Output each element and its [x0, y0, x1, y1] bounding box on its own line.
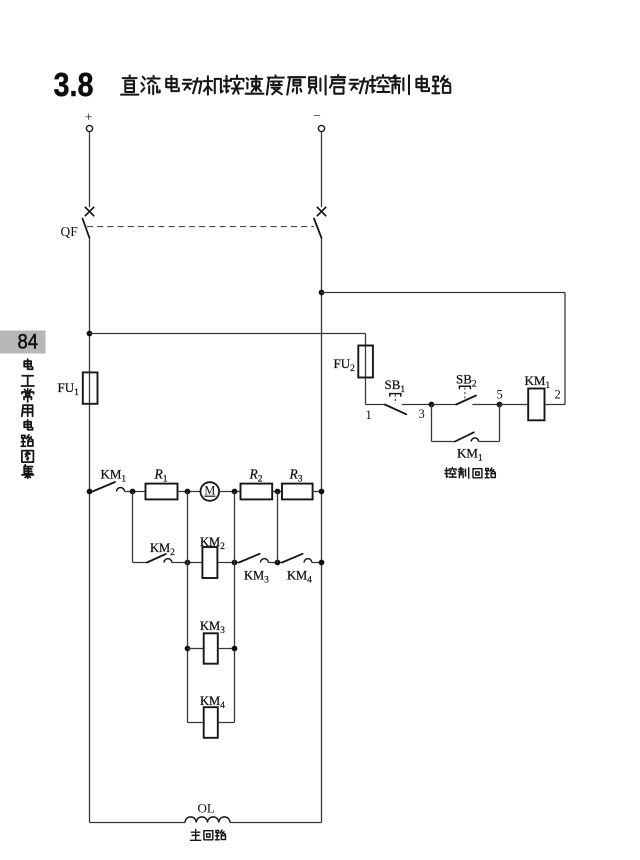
contactor coil KM1: [528, 389, 544, 421]
node 2: [555, 388, 561, 402]
svg-text:M: M: [204, 483, 215, 497]
svg-text:2: 2: [350, 364, 355, 374]
svg-text:1: 1: [478, 454, 483, 464]
contact KM1 main: [93, 482, 125, 492]
caption: main loop: [191, 830, 226, 841]
fuse FU1: [83, 372, 98, 403]
wire: KM4 contact to right bus: [312, 562, 322, 564]
wire: right bus QF down to main row: [321, 238, 323, 492]
fuse FU2: [358, 346, 373, 378]
wire: SB2 to node 5: [472, 404, 499, 406]
junction D: [275, 489, 281, 495]
svg-text:KM: KM: [525, 373, 546, 388]
resistor R3: [282, 484, 313, 500]
svg-text:OL: OL: [198, 801, 215, 816]
label KM4 (contact): [287, 569, 312, 586]
wire: FU2 branch down to control row: [365, 334, 367, 405]
breaker QF mechanical linkage (dashed): [87, 226, 314, 228]
wire: KM2 coil to KM3 contact: [217, 562, 239, 564]
contact KM3: [239, 554, 268, 563]
svg-text:KM: KM: [150, 541, 170, 555]
breaker QF left pole: [83, 207, 94, 238]
wire: drop from junction D: [277, 492, 279, 563]
wire: drop from junction A to KM2 contact: [133, 492, 147, 563]
breaker QF right pole: [314, 207, 326, 238]
svg-text:3: 3: [298, 475, 303, 485]
svg-text:1: 1: [163, 475, 168, 485]
label R2: [249, 467, 263, 485]
contact KM1 auxiliary (self-hold, NO): [455, 432, 479, 441]
label KM2 (coil): [200, 535, 225, 552]
wire: KM3 contact to KM4 contact: [268, 562, 282, 564]
label QF: [61, 224, 79, 239]
wire: KM3 coil left lead: [188, 648, 204, 650]
wire: KM1 aux contact up to node 5: [479, 405, 500, 442]
caption: control loop: [445, 468, 495, 479]
svg-text:2: 2: [258, 475, 263, 485]
svg-text:KM: KM: [244, 569, 264, 583]
label KM1 (coil): [525, 373, 551, 391]
wire: left bus to FU2 branch: [90, 333, 366, 335]
label KM3 (contact): [244, 569, 269, 586]
junction: left bus / main row: [87, 489, 93, 495]
wire: right bus main row down to bottom row: [321, 492, 323, 823]
label R3: [289, 467, 303, 485]
wire: KM2 contact to KM2 coil: [172, 562, 203, 564]
svg-text:84: 84: [18, 330, 39, 354]
wire: bottom row left: [90, 822, 186, 824]
wire: left bus from + terminal to QF: [89, 132, 91, 208]
svg-text:2: 2: [220, 542, 225, 552]
resistor R2: [241, 484, 273, 500]
wire: left bus QF to bottom (through FU1): [89, 238, 91, 492]
contactor coil KM2: [202, 547, 217, 578]
wire: node 5 to KM1 coil: [500, 404, 529, 406]
svg-text:KM: KM: [101, 467, 122, 482]
label KM1 (aux contact): [457, 446, 483, 464]
label KM1 (main contact): [101, 467, 127, 485]
contactor coil KM4: [204, 707, 218, 738]
svg-text:1: 1: [74, 388, 79, 398]
wire: drop C from main row to KM4 row: [234, 492, 236, 723]
label KM4 (coil): [200, 694, 225, 711]
motor M: [201, 482, 220, 501]
label SB1: [385, 377, 406, 395]
svg-text:1: 1: [366, 408, 372, 422]
svg-text:3.8: 3.8: [54, 66, 94, 104]
node 3: [419, 402, 435, 421]
svg-text:SB: SB: [385, 377, 401, 392]
wire: KM3 coil right lead: [218, 648, 235, 650]
junction: drop D / KM2 row: [275, 560, 281, 566]
junction: right bus to control loop feed: [319, 290, 325, 296]
svg-text:FU: FU: [58, 380, 75, 395]
junction C: [232, 489, 238, 495]
junction: drop C / KM3 row: [232, 646, 238, 652]
title: DC motor speed-principle starting control circuit: [121, 75, 450, 95]
page number 84: [0, 330, 46, 354]
wire: node 3 to SB2: [432, 404, 457, 406]
svg-text:1: 1: [545, 381, 550, 391]
svg-text:−: −: [314, 108, 321, 123]
label OL: [198, 801, 215, 816]
wire: R1 to motor: [178, 491, 201, 493]
label SB2: [456, 372, 477, 390]
wire: R3 to right bus: [313, 491, 322, 493]
section number 3.8: [54, 66, 94, 104]
sidebar book title (vertical): [21, 359, 34, 478]
svg-text:KM: KM: [200, 694, 220, 708]
wire: KM1 coil to right feed: [545, 404, 566, 406]
svg-text:3: 3: [220, 626, 225, 636]
svg-text:5: 5: [497, 388, 503, 402]
wire: left bus main row to bottom row: [89, 492, 91, 823]
wire: bottom row right: [230, 822, 322, 824]
node + (positive supply terminal): [85, 111, 93, 132]
svg-text:KM: KM: [200, 535, 220, 549]
svg-text:QF: QF: [61, 224, 79, 239]
wire: node 1 to SB1: [366, 404, 385, 406]
resistor R1: [146, 484, 178, 500]
label FU1: [58, 380, 80, 398]
pushbutton SB2 (NO start): [456, 386, 476, 404]
svg-text:4: 4: [307, 576, 312, 586]
junction: right bus / main row: [319, 489, 325, 495]
wire: node 3 down to KM1 aux contact: [432, 405, 456, 442]
svg-text:1: 1: [400, 385, 405, 395]
svg-text:FU: FU: [334, 356, 351, 371]
contact KM2: [147, 554, 172, 563]
svg-text:3: 3: [419, 407, 425, 421]
junction A (drop to KM2 contact): [130, 489, 136, 495]
overload heater OL: [185, 817, 230, 823]
junction: drop C / KM2 row: [232, 560, 238, 566]
svg-text:SB: SB: [456, 372, 472, 387]
wire: KM4 coil right lead: [218, 722, 235, 724]
wire: R2 to R3: [272, 491, 282, 493]
wire: SB1 to node 3: [402, 404, 432, 406]
svg-text:KM: KM: [200, 619, 220, 633]
junction: right bus / KM2 row: [319, 560, 325, 566]
node - (negative supply terminal): [314, 108, 325, 132]
svg-text:1: 1: [121, 475, 126, 485]
wire: motor to R2: [219, 491, 240, 493]
contactor coil KM3: [204, 633, 218, 663]
svg-text:3: 3: [264, 576, 269, 586]
contact KM4: [282, 554, 312, 563]
svg-text:KM: KM: [457, 446, 478, 461]
wire: KM1 main to R1: [125, 491, 146, 493]
wire: drop B from main row to KM4 row: [187, 492, 189, 723]
label KM3 (coil): [200, 619, 225, 636]
svg-text:4: 4: [220, 701, 225, 711]
wire: KM4 coil left lead: [188, 722, 204, 724]
node 5: [497, 388, 503, 408]
svg-text:2: 2: [472, 380, 477, 390]
wire: right bus from - terminal to QF: [321, 132, 323, 208]
junction: left bus to control branch: [87, 331, 93, 337]
wire: control circuit top feed: [322, 293, 566, 405]
svg-text:2: 2: [555, 388, 561, 402]
node 1: [366, 408, 372, 422]
label R1: [154, 467, 168, 485]
junction B: [185, 489, 191, 495]
svg-text:2: 2: [170, 548, 175, 558]
junction: drop B / KM2 row: [185, 560, 191, 566]
svg-text:KM: KM: [287, 569, 307, 583]
svg-text:+: +: [85, 111, 93, 126]
label KM2 (contact): [150, 541, 175, 558]
pushbutton SB1 (NC stop): [385, 394, 407, 415]
label FU2: [334, 356, 356, 374]
junction: drop B / KM3 row: [185, 646, 191, 652]
